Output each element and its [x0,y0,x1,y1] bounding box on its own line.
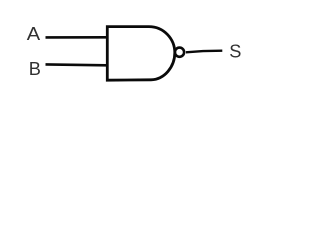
svg-text:B: B [29,59,41,79]
svg-text:S: S [229,41,241,61]
inversion bubble [175,48,184,57]
wire input B [46,63,107,67]
svg-text:A: A [27,24,41,44]
wire input A [46,36,107,39]
wire output S [186,51,222,53]
NAND gate U1 body [107,27,175,81]
